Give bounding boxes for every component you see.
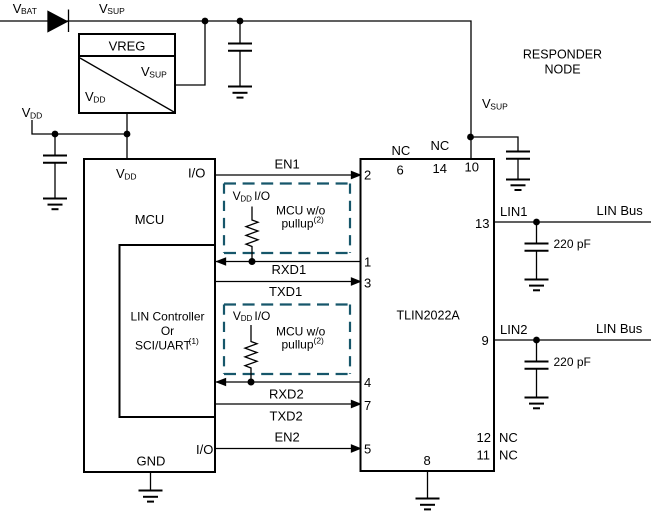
ground below C3 <box>506 180 530 191</box>
pin 4 label <box>364 375 371 390</box>
pin 3 label <box>364 276 371 291</box>
svg-text:DD: DD <box>240 194 252 203</box>
label EN1 <box>275 157 300 172</box>
svg-text:LIN2: LIN2 <box>500 322 527 337</box>
svg-text:7: 7 <box>364 398 371 413</box>
svg-text:DD: DD <box>30 110 42 120</box>
label VSUP right <box>482 96 508 111</box>
node junction VSUP branch <box>467 134 474 141</box>
svg-text:RXD2: RXD2 <box>269 387 304 402</box>
svg-text:TXD2: TXD2 <box>270 409 303 424</box>
svg-text:4: 4 <box>364 375 371 390</box>
node junction R2 on RXD2 <box>248 379 255 386</box>
label MCU <box>135 212 165 227</box>
label VDD I/O in box 2 <box>233 309 271 323</box>
ground below C1 <box>228 87 252 98</box>
label LIN Bus bottom <box>596 321 643 336</box>
label MCU w/o pullup box 1 <box>276 204 326 231</box>
pin NC 14 label <box>431 138 450 153</box>
svg-text:220 pF: 220 pF <box>554 237 591 251</box>
svg-text:Or: Or <box>161 324 174 338</box>
svg-text:DD: DD <box>124 171 136 181</box>
resistor R2 <box>245 325 257 382</box>
svg-text:SUP: SUP <box>490 101 508 111</box>
ground below TLIN stub <box>427 471 429 498</box>
wire EN2 <box>215 448 361 450</box>
capacitor C5 top stub <box>536 340 538 361</box>
svg-text:SUP: SUP <box>149 69 167 79</box>
pin 13 label <box>475 216 489 231</box>
ground below C2 <box>43 199 67 210</box>
wire LIN2 bus <box>494 339 651 341</box>
svg-text:SUP: SUP <box>107 6 125 16</box>
svg-text:1: 1 <box>364 255 371 270</box>
label LIN1 <box>500 204 527 219</box>
pin 8 label <box>424 453 431 468</box>
capacitor C4 top stub <box>536 222 538 243</box>
diode D1 <box>48 10 69 33</box>
label RXD1 <box>272 262 307 277</box>
wire VREG VDD output down to MCU <box>126 113 128 159</box>
label 220 pF top <box>554 237 591 251</box>
svg-text:MCU: MCU <box>135 212 165 227</box>
arrowhead RXD2 into MCU <box>217 379 226 386</box>
svg-text:(2): (2) <box>314 215 325 225</box>
label VDD I/O in box 1 <box>233 189 271 203</box>
arrowhead EN1 into pin 2 <box>352 172 361 179</box>
label VREG <box>109 39 146 54</box>
wire RXD1 <box>215 261 361 263</box>
label TLIN2022A <box>397 309 461 323</box>
pin 5 label <box>364 442 371 457</box>
svg-text:12: 12 <box>477 430 491 445</box>
label VDD inside VREG <box>85 89 106 104</box>
wire LIN1 bus <box>494 221 651 223</box>
pin 9 label <box>482 333 489 348</box>
ground below MCU stub <box>150 472 152 490</box>
svg-text:VREG: VREG <box>109 39 146 54</box>
label VDD left <box>22 105 43 120</box>
wire VBAT supply top rail <box>0 21 471 159</box>
label LIN Bus top <box>597 203 644 218</box>
label GND pin of MCU <box>137 454 166 469</box>
pin NC 6 label <box>392 143 411 158</box>
label TXD2 <box>270 409 303 424</box>
pin 6 label <box>397 163 404 178</box>
svg-text:NC: NC <box>499 448 518 463</box>
ground below TLIN <box>416 499 440 510</box>
wire VSUP branch to C3 <box>471 137 519 151</box>
svg-text:8: 8 <box>424 453 431 468</box>
pin 11 label <box>477 448 491 463</box>
svg-text:11: 11 <box>477 448 491 463</box>
wire VREG VSUP output to top rail <box>175 21 205 85</box>
svg-text:14: 14 <box>433 161 447 176</box>
wire RXD2 <box>215 381 361 383</box>
label MCU w/o pullup box 2 <box>276 325 326 352</box>
label I/O bottom pin of MCU <box>196 442 213 457</box>
svg-text:13: 13 <box>475 216 489 231</box>
pin 2 label <box>364 168 371 183</box>
ground below MCU <box>139 491 163 502</box>
capacitor C4 220pF <box>525 244 549 251</box>
capacitor C3 bottom stub <box>517 160 519 179</box>
node junction at C2 <box>52 131 59 138</box>
label 220 pF bottom <box>554 355 591 369</box>
svg-text:NC: NC <box>431 138 450 153</box>
svg-text:I/O: I/O <box>196 442 213 457</box>
node junction at VREG VSUP riser <box>202 18 209 25</box>
capacitor C2 top stub <box>54 134 56 155</box>
label LIN Controller Or SCI/UART <box>130 310 204 353</box>
svg-text:9: 9 <box>482 333 489 348</box>
node junction at C5 <box>533 337 540 344</box>
svg-text:DD: DD <box>93 94 105 104</box>
svg-text:NC: NC <box>392 143 411 158</box>
dashed MCU w/o pullup box 1 <box>224 184 350 254</box>
svg-text:LIN Controller: LIN Controller <box>130 310 204 324</box>
svg-text:BAT: BAT <box>21 6 37 16</box>
label VDD pin of MCU <box>116 166 137 181</box>
svg-text:LIN1: LIN1 <box>500 204 527 219</box>
capacitor C1 bottom stub <box>239 52 241 86</box>
label RXD2 <box>269 387 304 402</box>
svg-text:EN1: EN1 <box>275 157 300 172</box>
svg-text:NC: NC <box>499 430 518 445</box>
node junction at C1 <box>237 18 244 25</box>
TLIN2022A U1 box <box>361 159 495 471</box>
pin NC 12 label <box>499 430 518 445</box>
svg-text:3: 3 <box>364 276 371 291</box>
svg-text:I/O: I/O <box>254 189 270 203</box>
svg-text:LIN Bus: LIN Bus <box>596 321 643 336</box>
capacitor C4 bottom stub <box>536 252 538 279</box>
svg-text:6: 6 <box>397 163 404 178</box>
svg-text:TLIN2022A: TLIN2022A <box>397 309 461 323</box>
svg-text:SCI/UART: SCI/UART <box>135 339 191 353</box>
wire VDD left rail <box>32 120 127 134</box>
pin NC 11 label <box>499 448 518 463</box>
arrowhead TXD2 into pin 7 <box>352 401 361 408</box>
svg-text:10: 10 <box>465 160 479 175</box>
capacitor C2 bottom stub <box>54 164 56 198</box>
label I/O top pin of MCU <box>188 166 205 181</box>
svg-text:2: 2 <box>364 168 371 183</box>
ground below C4 <box>525 280 549 291</box>
label RESPONDER NODE <box>523 48 602 77</box>
arrowhead EN2 into pin 5 <box>352 445 361 452</box>
wire TXD2 <box>215 403 361 405</box>
dashed MCU w/o pullup box 2 <box>224 305 350 375</box>
capacitor C1 top stub <box>239 21 241 43</box>
node junction VDD rail <box>124 131 131 138</box>
wire EN1 <box>215 174 361 176</box>
pin 7 label <box>364 398 371 413</box>
svg-text:I/O: I/O <box>188 166 205 181</box>
svg-text:pullup: pullup <box>282 217 314 231</box>
VREG diagonal <box>80 58 174 112</box>
node junction at C4 <box>533 219 540 226</box>
pin 1 label <box>364 255 371 270</box>
LIN controller inner box <box>120 245 216 417</box>
pin 14 label <box>433 161 447 176</box>
label VSUP inside VREG <box>141 64 167 79</box>
svg-text:LIN Bus: LIN Bus <box>597 203 644 218</box>
svg-text:pullup: pullup <box>282 338 314 352</box>
svg-text:RESPONDER: RESPONDER <box>523 48 602 62</box>
svg-text:GND: GND <box>137 454 166 469</box>
label VBAT <box>13 1 37 16</box>
voltage regulator VREG <box>79 34 175 113</box>
svg-text:NODE: NODE <box>544 63 580 77</box>
arrowhead RXD1 into MCU <box>217 258 226 265</box>
MCU U2 box <box>84 159 215 472</box>
label VSUP top <box>99 1 125 16</box>
svg-text:220 pF: 220 pF <box>554 355 591 369</box>
svg-text:(1): (1) <box>189 336 200 346</box>
svg-text:I/O: I/O <box>254 309 270 323</box>
label LIN2 <box>500 322 527 337</box>
svg-text:RXD1: RXD1 <box>272 262 307 277</box>
pin 12 label <box>477 430 491 445</box>
capacitor C5 220pF <box>525 362 549 369</box>
ground below C5 <box>525 398 549 409</box>
svg-text:5: 5 <box>364 442 371 457</box>
label TXD1 <box>269 284 302 299</box>
svg-text:EN2: EN2 <box>275 430 300 445</box>
arrowhead TXD1 into pin 3 <box>352 278 361 285</box>
pin 10 label <box>465 160 479 175</box>
svg-text:DD: DD <box>241 314 253 323</box>
capacitor C1 <box>228 44 252 51</box>
capacitor C5 bottom stub <box>536 370 538 397</box>
svg-text:(2): (2) <box>314 336 325 346</box>
resistor R1 <box>246 207 258 262</box>
svg-text:TXD1: TXD1 <box>269 284 302 299</box>
wire TXD1 <box>215 281 361 283</box>
label EN2 <box>275 430 300 445</box>
capacitor C2 <box>43 156 67 163</box>
node junction R1 on RXD1 <box>249 258 256 265</box>
capacitor C3 <box>506 152 530 159</box>
